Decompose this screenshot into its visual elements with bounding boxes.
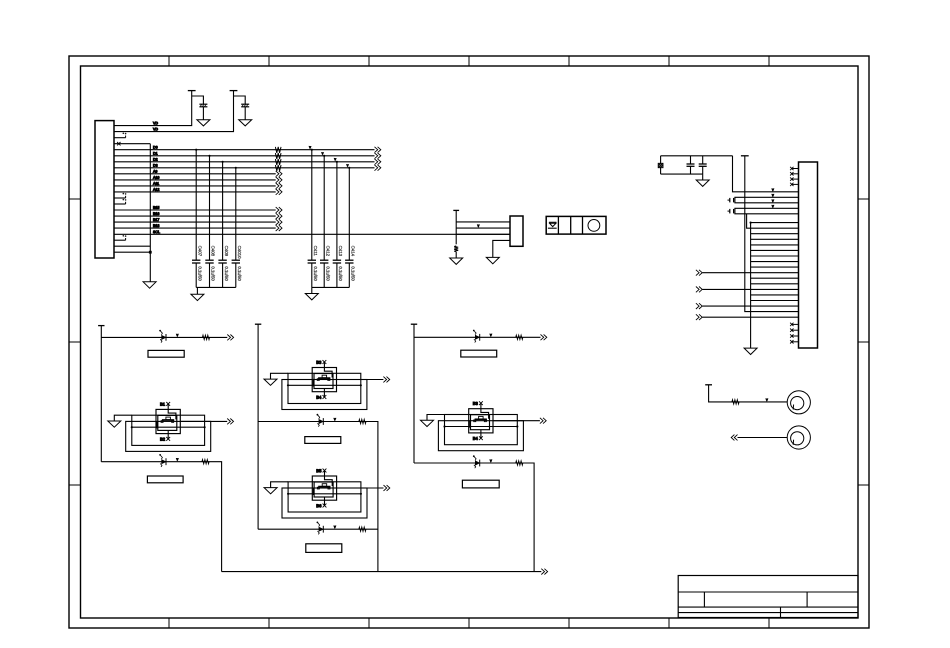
wire cap drop 7a xyxy=(222,162,224,260)
capacitor C423 xyxy=(729,209,731,214)
svg-text:0.1u/50: 0.1u/50 xyxy=(211,266,216,281)
svg-text:C407: C407 xyxy=(197,246,202,257)
wire pin11 xyxy=(114,185,276,187)
svg-text:0.1u/50: 0.1u/50 xyxy=(237,266,242,281)
transistor Q2 gate notch xyxy=(322,375,327,378)
node B1 x-mark xyxy=(166,402,170,406)
wire loop outer xyxy=(438,421,523,451)
svg-text:v: v xyxy=(322,151,324,155)
svg-text:v: v xyxy=(334,417,336,421)
svg-text:v: v xyxy=(772,204,774,208)
junction xyxy=(149,251,152,254)
svg-text:v: v xyxy=(772,199,774,203)
wire bottom net xyxy=(222,571,542,573)
wire to ground xyxy=(271,373,289,379)
transistor Q2 source lead xyxy=(323,389,325,397)
transistor Q2 block outer box xyxy=(312,368,336,392)
power symbol VDD1 xyxy=(188,90,196,92)
capacitor C412 xyxy=(320,259,328,261)
wire pin19 long net xyxy=(114,233,510,235)
svg-text:v: v xyxy=(334,525,336,529)
ground xyxy=(239,120,252,126)
ground xyxy=(264,379,277,385)
wire gnd drop 1 xyxy=(196,287,198,294)
wire pin4 to ground rail xyxy=(114,143,150,145)
svg-text:VD: VD xyxy=(153,127,158,131)
wire J3 power pin xyxy=(733,156,799,192)
power bar xyxy=(255,323,261,325)
wire top rail right xyxy=(661,155,733,157)
wire output xyxy=(337,379,384,381)
wire row C1 xyxy=(258,422,378,572)
wire output xyxy=(180,420,227,422)
svg-text:C409: C409 xyxy=(224,246,229,257)
capacitor C421 xyxy=(702,156,704,164)
buzzer LS1 xyxy=(546,216,606,234)
svg-text:0.1u/50: 0.1u/50 xyxy=(351,266,356,281)
svg-text:D2: D2 xyxy=(153,158,158,162)
connector J1 xyxy=(95,121,114,258)
off-page arrow xyxy=(227,419,230,425)
wire pin14 stub xyxy=(114,203,126,205)
off-page arrow xyxy=(375,153,378,159)
capacitor C411 xyxy=(308,259,316,261)
diode D-R2 xyxy=(475,461,479,465)
transistor Q3 body bar xyxy=(313,488,315,495)
off-page arrow left xyxy=(731,435,734,441)
svg-text:A11: A11 xyxy=(153,182,159,186)
label box R1 xyxy=(461,350,497,357)
wire gnd drop 2 xyxy=(311,287,313,293)
resistor R-J2 xyxy=(454,246,458,252)
node B3 x-mark xyxy=(479,401,483,405)
transistor Q3 drain pad xyxy=(328,487,330,489)
off-page arrow xyxy=(696,314,699,320)
wire row L1 xyxy=(101,336,227,338)
svg-text:C413: C413 xyxy=(338,246,343,257)
wire loop outer xyxy=(282,488,367,518)
transistor Q4 gate notch xyxy=(479,416,484,419)
capacitor C422 xyxy=(729,198,731,203)
svg-text:B6: B6 xyxy=(316,503,322,508)
wire J3 ground rail xyxy=(750,223,752,349)
svg-text:0.1u/50: 0.1u/50 xyxy=(197,266,202,281)
svg-text:B15: B15 xyxy=(153,206,159,210)
wire pin7 bus xyxy=(114,161,375,163)
wire bottom rail right xyxy=(661,173,703,175)
svg-text:D0: D0 xyxy=(153,146,158,150)
node B3 x-mark xyxy=(323,360,327,364)
transistor Q2 channel bar xyxy=(318,377,330,379)
connector J2 xyxy=(510,216,523,246)
wire J3 row 15 xyxy=(751,300,799,302)
transistor Q2 body bar xyxy=(313,380,315,387)
off-page arrow xyxy=(375,159,378,165)
wire pin5 bus xyxy=(114,149,375,151)
wire center rail xyxy=(257,324,259,529)
svg-text:D3: D3 xyxy=(153,164,158,168)
svg-text:B16: B16 xyxy=(153,212,159,216)
wire row R1 xyxy=(414,336,541,338)
test point TP2 xyxy=(787,426,810,449)
transistor Q4 block outer box xyxy=(469,409,493,433)
no-connect x xyxy=(117,142,120,145)
wire output xyxy=(337,487,384,489)
ground xyxy=(421,420,434,426)
off-page arrow xyxy=(375,147,378,153)
transistor Q2 drain pad xyxy=(328,379,330,381)
wire J3 row 3 xyxy=(751,233,799,235)
svg-text:v: v xyxy=(334,157,336,161)
wire pin1 to power xyxy=(114,91,192,126)
transistor Q1 source lead xyxy=(167,430,169,438)
wire J3 row 16 (off-page) xyxy=(702,305,798,307)
transistor Q4 drain lead xyxy=(481,403,489,418)
off-page arrow xyxy=(540,418,543,424)
wire cap drop 6b xyxy=(323,156,325,260)
transistor Q3 source lead xyxy=(324,497,326,505)
off-page arrow xyxy=(696,303,699,309)
transistor Q3 source pad xyxy=(317,487,319,489)
wire right rail xyxy=(413,324,415,463)
off-page arrow xyxy=(375,165,378,171)
wire J3 nc stub top 2 xyxy=(792,173,799,175)
off-page arrow xyxy=(227,335,230,341)
off-page arrow xyxy=(383,377,386,383)
wire J3 row 12 xyxy=(751,283,799,285)
transistor Q4 inner box xyxy=(471,415,490,430)
ground GND-J1 xyxy=(143,282,156,288)
label box C2 xyxy=(306,544,342,553)
buzzer circle xyxy=(588,220,600,232)
wire pin10 xyxy=(114,179,276,181)
transistor Q2 inner box xyxy=(314,374,333,389)
transistor Q3 gate notch xyxy=(322,484,327,487)
ferrite bead inline xyxy=(275,165,281,171)
wire J2 pin2 xyxy=(456,227,510,229)
transistor Q2 source pad xyxy=(317,379,319,381)
wire cap drop 8a xyxy=(235,168,237,260)
svg-text:B4: B4 xyxy=(473,436,479,441)
transistor Q1 drain pad xyxy=(172,421,174,423)
power bar xyxy=(705,384,712,386)
buzzer symbol xyxy=(549,221,556,223)
svg-text:C412: C412 xyxy=(325,246,330,257)
off-page arrow xyxy=(276,213,279,219)
svg-text:v: v xyxy=(772,193,774,197)
wire J3 row 14 xyxy=(751,294,799,296)
off-page arrow xyxy=(541,334,544,340)
off-page arrow xyxy=(276,177,279,183)
off-page arrow xyxy=(276,225,279,231)
wire J3 row 6 xyxy=(751,249,799,251)
svg-text:0.1u/50: 0.1u/50 xyxy=(224,266,229,281)
capacitor C401 xyxy=(199,103,207,105)
wire left rail xyxy=(100,326,102,462)
transistor Q3 drain lead xyxy=(325,471,333,486)
off-page arrow xyxy=(696,270,699,276)
wire pin9 xyxy=(114,173,276,175)
wire pin13 stub xyxy=(114,197,126,199)
wire power stem xyxy=(455,210,457,244)
wire cap drop 6a xyxy=(209,156,211,260)
transistor Q4 drain pad xyxy=(484,420,486,422)
svg-text:v: v xyxy=(309,145,311,149)
off-page arrow xyxy=(384,485,387,491)
wire V3 xyxy=(747,214,799,228)
diode D-L2 xyxy=(162,460,166,464)
power symbol VCC-J2 xyxy=(453,209,459,211)
wire J3 nc stub bottom 2 xyxy=(792,329,799,331)
wire cross link xyxy=(288,384,361,386)
capacitor C414 xyxy=(345,259,353,261)
ground GND-C411 xyxy=(305,294,318,300)
transistor Q2 drain lead xyxy=(324,362,332,377)
svg-text:v: v xyxy=(772,188,774,192)
wire loop outer xyxy=(282,380,367,410)
power bar xyxy=(98,325,104,327)
label box L2 xyxy=(147,476,183,483)
ground GND-J2b xyxy=(486,257,499,263)
wire loop inner xyxy=(445,415,518,445)
svg-text:B17: B17 xyxy=(153,218,159,222)
border zone ticks top/bottom xyxy=(168,56,170,66)
svg-text:0.1u/50: 0.1u/50 xyxy=(313,266,318,281)
off-page arrow xyxy=(276,219,279,225)
wire cap drop 7b xyxy=(336,162,338,260)
wire row C2 xyxy=(258,528,378,530)
transistor Q3 block outer box xyxy=(312,476,336,500)
wire pin16 xyxy=(114,215,276,217)
wire pin18 xyxy=(114,227,276,229)
svg-text:0.1u/50: 0.1u/50 xyxy=(338,266,343,281)
wire row R2 xyxy=(414,463,534,572)
svg-text:B3: B3 xyxy=(473,401,479,406)
label box R2 xyxy=(462,480,499,488)
node B4 x-mark xyxy=(479,436,483,440)
off-page arrow xyxy=(541,569,544,575)
wire loop inner xyxy=(288,482,361,512)
ferrite bead FB1 xyxy=(660,156,662,164)
wire J3 row 9 xyxy=(751,266,799,268)
ground GND-C420 xyxy=(696,180,709,186)
wire J3 nc stub top 3 xyxy=(792,178,799,180)
power symbol VCC-J3 xyxy=(741,155,749,157)
wire row L2 xyxy=(101,462,221,572)
wire J3 row 18 (off-page) xyxy=(702,316,798,318)
off-page arrow xyxy=(696,287,699,293)
wire J3 nc stub top 4 xyxy=(792,183,799,185)
wire cross link xyxy=(132,426,205,428)
wire pin12 xyxy=(114,191,276,193)
wire to ground xyxy=(427,415,445,421)
transistor Q1 inner box xyxy=(158,415,177,430)
svg-text:B5: B5 xyxy=(316,468,322,473)
svg-text:C408: C408 xyxy=(211,246,216,257)
svg-text:B3: B3 xyxy=(316,360,322,365)
wire bracket U1 xyxy=(735,197,799,203)
ferrite bead inline xyxy=(275,159,281,165)
wire J3 row 13 (off-page) xyxy=(702,288,798,290)
ground GND-J3 xyxy=(744,348,757,354)
node B5 x-mark xyxy=(323,469,327,473)
transistor Q3 inner box xyxy=(314,482,333,497)
svg-text:v: v xyxy=(766,398,768,402)
off-page arrow xyxy=(276,183,279,189)
svg-text:v: v xyxy=(490,459,492,463)
connector J3 xyxy=(799,162,818,348)
wire cap branch 2 xyxy=(234,96,246,104)
transistor Q4 channel bar xyxy=(475,418,487,420)
wire cap drop 8b xyxy=(348,168,350,260)
wire J3 row 11 xyxy=(751,277,799,279)
sheet inner border xyxy=(81,66,859,618)
wire loop inner xyxy=(132,415,205,445)
resistor R-TP1 xyxy=(732,400,739,405)
capacitor C407 xyxy=(192,259,200,261)
capacitor C409 xyxy=(218,259,226,261)
transistor Q4 source lead xyxy=(480,430,482,438)
power bar xyxy=(411,323,417,325)
wire loop outer xyxy=(126,421,211,451)
wire TP1 xyxy=(709,385,788,402)
wire pin2 to power xyxy=(114,91,234,132)
wire J3 row 7 xyxy=(751,255,799,257)
transistor Q1 gate notch xyxy=(166,417,171,420)
transistor Q4 source pad xyxy=(474,420,476,422)
wire pin22 xyxy=(114,251,150,253)
capacitor C402 xyxy=(241,103,249,105)
wire to ground xyxy=(271,482,289,488)
wire pin15 xyxy=(114,209,276,211)
node B2 x-mark xyxy=(166,437,170,441)
wire cap bus 1 xyxy=(196,286,236,288)
wire cap bus 2 xyxy=(312,286,350,288)
capacitor C408 xyxy=(205,259,213,261)
transistor Q3 channel bar xyxy=(318,486,330,488)
wire J2 pin4 xyxy=(493,240,510,257)
transistor Q1 body bar xyxy=(156,421,158,428)
wire TP2 xyxy=(738,437,788,439)
svg-text:B18: B18 xyxy=(153,224,159,228)
diode D-C2 xyxy=(319,527,323,531)
svg-text:C411: C411 xyxy=(313,246,318,257)
wire J3 nc stub bottom 3 xyxy=(792,335,799,337)
svg-text:C4010: C4010 xyxy=(237,246,242,259)
svg-text:0.1u/50: 0.1u/50 xyxy=(325,266,330,281)
off-page arrow xyxy=(276,171,279,177)
svg-text:A9: A9 xyxy=(153,170,157,174)
svg-text:v: v xyxy=(477,224,479,228)
svg-text:VD: VD xyxy=(153,121,158,125)
wire gnd drop xyxy=(702,174,704,180)
wire output xyxy=(493,420,540,422)
wire to ground xyxy=(455,252,457,258)
transistor Q1 drain lead xyxy=(168,404,176,419)
transistor Q1 source pad xyxy=(161,421,163,423)
svg-text:v: v xyxy=(176,333,178,337)
wire loop inner xyxy=(288,373,361,403)
wire cross link xyxy=(288,493,361,495)
wire J3 nc stub bottom 1 xyxy=(792,323,799,325)
wire J3 row 8 xyxy=(751,261,799,263)
wire cap drop 5a xyxy=(195,150,197,261)
svg-text:C414: C414 xyxy=(351,246,356,257)
wire cap branch xyxy=(192,96,204,104)
sheet outer border xyxy=(69,56,869,628)
diode D-R1 xyxy=(475,335,479,339)
capacitor C4010 xyxy=(232,259,240,261)
wire pin17 xyxy=(114,221,276,223)
wire power drop J3 xyxy=(745,156,799,312)
off-page arrow xyxy=(276,207,279,213)
test point TP1 xyxy=(787,391,810,414)
wire J3 row 10 (off-page) xyxy=(702,272,798,274)
ground xyxy=(197,120,210,126)
transistor Q4 body bar xyxy=(469,421,471,428)
diode D-C1 xyxy=(319,419,323,423)
wire pin6 bus xyxy=(114,155,375,157)
wire to ground xyxy=(114,415,132,421)
ferrite bead inline xyxy=(275,147,281,153)
svg-text:A12: A12 xyxy=(153,188,159,192)
capacitor C420 xyxy=(690,156,692,164)
svg-text:A10: A10 xyxy=(153,176,159,180)
svg-text:v: v xyxy=(490,333,492,337)
ground xyxy=(108,421,121,427)
svg-text:v: v xyxy=(347,163,349,167)
wire J3 nc stub top 1 xyxy=(792,168,799,170)
wire pin3 stub xyxy=(114,137,126,139)
svg-text:D1: D1 xyxy=(153,152,158,156)
wire J2 pin3 (long net) xyxy=(456,233,510,235)
wire pin8 bus xyxy=(114,167,375,169)
transistor Q1 block outer box xyxy=(156,409,180,433)
ground xyxy=(264,488,277,494)
wire cross link xyxy=(445,426,518,428)
svg-text:B2: B2 xyxy=(160,437,166,442)
wire ground rail vertical xyxy=(149,144,151,282)
wire J3 row 4 xyxy=(751,238,799,240)
wire J2 pin1 xyxy=(456,221,510,223)
title block xyxy=(678,576,858,618)
transistor Q1 channel bar xyxy=(162,419,174,421)
wire J3 nc stub bottom 4 xyxy=(792,341,799,343)
wire pin21 xyxy=(114,245,150,247)
wire J3 row 5 xyxy=(751,244,799,246)
label box L1 xyxy=(148,350,184,357)
svg-text:v: v xyxy=(176,457,178,461)
node B4 x-mark xyxy=(323,395,327,399)
off-page arrow xyxy=(276,189,279,195)
diode D-L1 xyxy=(162,335,166,339)
ground GND-C407 xyxy=(191,294,204,300)
wire J3 row 1 xyxy=(751,222,799,224)
wire bracket U2 xyxy=(735,208,799,214)
svg-text:SCL: SCL xyxy=(153,230,160,234)
border zone ticks left/right xyxy=(69,198,81,200)
node B6 x-mark xyxy=(323,504,327,508)
svg-text:B1: B1 xyxy=(160,402,166,407)
ground GND-J2a xyxy=(450,258,463,264)
power symbol VDD2 xyxy=(230,90,238,92)
ferrite bead inline xyxy=(275,153,281,159)
wire pin20 stub xyxy=(114,239,126,241)
label box C1 xyxy=(305,437,341,444)
wire cap drop 5b xyxy=(311,150,313,261)
svg-text:B4: B4 xyxy=(316,395,322,400)
capacitor C413 xyxy=(333,259,341,261)
